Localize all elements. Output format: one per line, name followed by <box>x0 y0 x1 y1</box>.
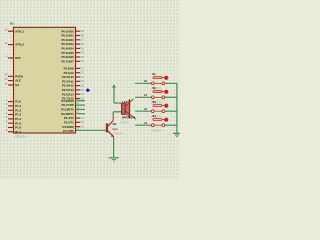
svg-text:x2: x2 <box>144 107 147 111</box>
svg-text:<TEXT>: <TEXT> <box>120 120 130 124</box>
svg-text:EA: EA <box>15 83 19 87</box>
svg-text:x0: x0 <box>144 79 147 83</box>
svg-text:<TEXT>: <TEXT> <box>151 128 163 132</box>
svg-text:S3: S3 <box>152 100 156 104</box>
svg-text:U1: U1 <box>10 21 14 25</box>
svg-text:P0.7/AD7: P0.7/AD7 <box>62 59 75 63</box>
svg-text:XTAL2: XTAL2 <box>15 43 24 47</box>
svg-text:<TEXT>: <TEXT> <box>113 131 124 135</box>
svg-text:<TEXT>: <TEXT> <box>14 135 27 139</box>
svg-text:x1: x1 <box>144 93 147 97</box>
svg-text:RST: RST <box>15 56 21 60</box>
svg-text:npn: npn <box>112 127 117 131</box>
svg-text:P1.7: P1.7 <box>15 130 21 134</box>
svg-text:SPEAKER: SPEAKER <box>122 116 136 120</box>
svg-text:S4: S4 <box>152 114 156 118</box>
svg-text:XTAL1: XTAL1 <box>15 29 24 33</box>
svg-text:ALE: ALE <box>15 79 21 83</box>
svg-text:S2: S2 <box>152 86 156 90</box>
svg-text:P3.7/RD: P3.7/RD <box>63 129 74 133</box>
svg-text:x3: x3 <box>144 121 147 125</box>
svg-text:LS1: LS1 <box>122 100 128 104</box>
svg-text:S1: S1 <box>152 72 156 76</box>
svg-text:Q1: Q1 <box>113 122 117 126</box>
